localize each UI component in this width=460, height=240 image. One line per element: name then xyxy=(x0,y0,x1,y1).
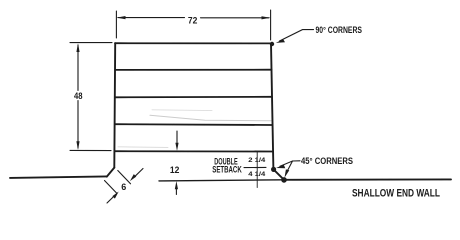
wire 6 dim lower arrow xyxy=(107,197,114,204)
node corner dot bottom right upper xyxy=(271,167,276,172)
svg-text:48: 48 xyxy=(74,91,83,102)
svg-text:4 1/4: 4 1/4 xyxy=(248,171,265,178)
wire setback fraction vertical line xyxy=(256,151,258,187)
wire floor line left xyxy=(10,176,107,178)
node corner dot bottom right lower xyxy=(281,177,287,183)
wire right 45-degree cut xyxy=(273,169,284,180)
wire 48 dimension extension line bottom xyxy=(70,149,111,151)
wire floor extension under wall xyxy=(159,180,284,181)
wire course line 3 xyxy=(115,96,272,99)
node 72 left arrow xyxy=(117,16,126,19)
wire course line 4 xyxy=(115,123,273,126)
svg-text:90° CORNERS: 90° CORNERS xyxy=(316,25,363,36)
wire wall bottom course line xyxy=(115,150,273,152)
wire floor line right xyxy=(284,178,451,180)
svg-text:2 1/4: 2 1/4 xyxy=(248,157,265,164)
node 48 top arrow xyxy=(76,43,79,52)
wire 6 dim extension line B xyxy=(105,181,118,194)
wire 48 dimension extension line top xyxy=(70,42,112,44)
wire 72 dimension extension line right xyxy=(270,10,272,40)
wire wall right edge xyxy=(271,43,273,169)
wire 72 dimension extension line left xyxy=(115,11,117,38)
wire 90-degree leader xyxy=(280,30,314,41)
wire 12 dimension down arrow xyxy=(176,131,178,145)
node 72 right arrow xyxy=(262,16,271,19)
wire 48 dimension line xyxy=(77,45,79,91)
svg-text:12: 12 xyxy=(170,165,180,176)
wire course line 2 xyxy=(115,69,271,71)
svg-text:6: 6 xyxy=(121,182,126,192)
wire ghost line faint 2 xyxy=(118,146,168,149)
wire ghost line faint 3 xyxy=(152,109,212,112)
svg-text:SHALLOW END WALL: SHALLOW END WALL xyxy=(352,187,440,199)
wire wall top edge xyxy=(115,42,271,44)
wire 6 dim upper arrow xyxy=(135,169,143,177)
node 48 bottom arrow xyxy=(76,141,79,150)
wire 45-degree leader xyxy=(280,161,300,166)
wire wall left edge xyxy=(113,43,116,167)
wire ghost line faint xyxy=(150,115,271,121)
svg-text:72: 72 xyxy=(188,15,198,26)
svg-text:45° CORNERS: 45° CORNERS xyxy=(301,156,353,167)
wire setback fraction divider line xyxy=(244,166,266,168)
wire 72 dimension line xyxy=(118,17,185,19)
wire 12 dimension up arrow xyxy=(175,187,177,195)
wire 6 dim extension line A xyxy=(118,171,131,184)
svg-text:SETBACK: SETBACK xyxy=(212,165,242,175)
wire left 45-degree cut xyxy=(107,168,115,177)
node corner dot top right xyxy=(270,42,274,46)
